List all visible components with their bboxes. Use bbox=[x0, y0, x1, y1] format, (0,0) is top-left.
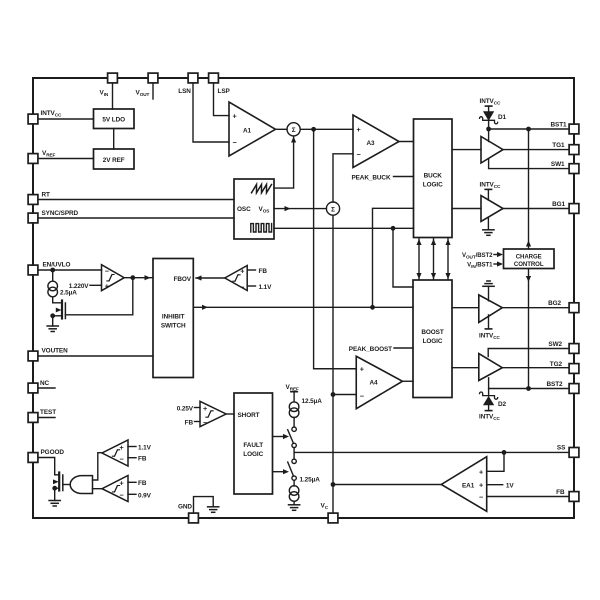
svg-text:+: + bbox=[479, 481, 483, 490]
svg-text:0.25V: 0.25V bbox=[177, 405, 194, 412]
wire AND out to M2 gate bbox=[63, 484, 70, 486]
svg-text:BG1: BG1 bbox=[552, 201, 565, 208]
pin VIN bbox=[108, 73, 118, 83]
svg-text:FB: FB bbox=[138, 480, 147, 487]
pin TEST bbox=[28, 413, 38, 423]
svg-text:−: − bbox=[105, 266, 109, 275]
wire SHORT comp out to FAULT LOGIC bbox=[226, 413, 234, 415]
svg-text:−: − bbox=[360, 391, 364, 400]
block BUCK LOGIC bbox=[414, 119, 453, 238]
sawtooth waveform glyph bbox=[252, 185, 272, 193]
svg-text:−: − bbox=[120, 454, 124, 463]
comparator PGOOD OV bbox=[102, 440, 128, 466]
wire M2 source to ground bbox=[54, 488, 56, 500]
svg-text:LOGIC: LOGIC bbox=[423, 182, 443, 189]
svg-text:+: + bbox=[357, 125, 361, 134]
wire FB stub OV bbox=[128, 457, 136, 459]
svg-text:+: + bbox=[105, 282, 109, 291]
wire EN/UVLO pin to comparator bbox=[38, 269, 101, 271]
block CHARGE CONTROL bbox=[504, 249, 555, 269]
svg-text:+: + bbox=[120, 443, 124, 452]
svg-text:12.5µA: 12.5µA bbox=[302, 398, 323, 405]
block 2V REF bbox=[94, 149, 135, 169]
wire BST1 rail into driver top bbox=[488, 129, 490, 142]
wire A1 out to sigma1 bbox=[276, 128, 288, 130]
svg-text:1.25µA: 1.25µA bbox=[300, 476, 321, 483]
summer sigma2 bbox=[326, 202, 339, 215]
pin EN/UVLO bbox=[28, 265, 38, 275]
junction square wave branch bbox=[391, 226, 396, 231]
pin SS bbox=[569, 448, 579, 458]
wire BST2 rail from driver bottom bbox=[489, 378, 569, 389]
wire charge pump up BST1 bbox=[528, 129, 530, 249]
op-amp A4 bbox=[356, 356, 402, 409]
hysteresis glyph SHORT comp bbox=[206, 411, 213, 417]
wire sigma1 to A3 plus bbox=[300, 128, 353, 130]
ground M2 bbox=[49, 501, 60, 507]
wire BOOST to TG2 driver bbox=[452, 367, 479, 369]
svg-text:Σ: Σ bbox=[331, 206, 335, 213]
pin TG2 bbox=[569, 364, 579, 374]
svg-text:+: + bbox=[233, 112, 237, 121]
wire inhibit branch to BUCK LOGIC bbox=[373, 208, 414, 307]
wire SW2 from TG2 driver top bbox=[488, 349, 569, 357]
wire source to ground bbox=[52, 316, 54, 326]
svg-text:1V: 1V bbox=[506, 482, 514, 489]
pin VOUT bbox=[148, 73, 158, 83]
buck-boost link arrow 3 bbox=[445, 239, 450, 280]
wire VOS to sigma2 bbox=[274, 208, 326, 210]
pin LSN bbox=[188, 73, 198, 83]
block FAULT LOGIC bbox=[234, 393, 273, 494]
square waveform glyph bbox=[251, 224, 272, 232]
switch SW B terminals and blade bbox=[288, 459, 297, 480]
svg-text:EA1: EA1 bbox=[462, 482, 475, 489]
junction SS to EA1 bbox=[502, 450, 507, 455]
wire source to mosfet drain bbox=[53, 298, 62, 303]
diode D1 schottky bbox=[480, 106, 498, 129]
comparator SHORT bbox=[200, 401, 226, 426]
wire 1V stub EA1 plus2 bbox=[487, 484, 503, 486]
svg-text:VOUTEN: VOUTEN bbox=[42, 348, 69, 355]
wire BG2 driver top to ground bbox=[488, 286, 490, 301]
svg-text:Σ: Σ bbox=[292, 127, 296, 134]
wire UV comp to AND input2 bbox=[93, 488, 102, 490]
block BOOST LOGIC bbox=[413, 280, 452, 398]
arrowhead into INHIBIT bbox=[145, 275, 151, 280]
driver BG1 bbox=[481, 196, 503, 222]
wire TG1 driver out to pin bbox=[503, 149, 569, 151]
wire charge pump down BST2 bbox=[528, 269, 530, 389]
wire SS branch to EA1 plus1 bbox=[487, 452, 504, 471]
ground BG1 driver bbox=[483, 230, 494, 236]
svg-text:SYNC/SPRD: SYNC/SPRD bbox=[42, 210, 79, 217]
svg-text:VREF: VREF bbox=[42, 150, 56, 158]
svg-text:PGOOD: PGOOD bbox=[41, 449, 65, 456]
wire INTVCC to BG1 driver top bbox=[487, 189, 489, 200]
svg-text:GND: GND bbox=[178, 504, 192, 511]
wire PGOOD pin to mosfet bbox=[38, 458, 59, 475]
wire VREF to current source bbox=[293, 392, 295, 402]
block OSC bbox=[234, 179, 274, 239]
junction A4 minus on VC node bbox=[331, 392, 336, 397]
pin LSP bbox=[209, 73, 219, 83]
wire 5V LDO to 2V REF bbox=[113, 129, 115, 150]
svg-text:LSN: LSN bbox=[178, 88, 191, 95]
svg-text:LOGIC: LOGIC bbox=[243, 451, 263, 458]
svg-text:PEAK_BUCK: PEAK_BUCK bbox=[351, 174, 391, 181]
op-amp EA1 bbox=[441, 457, 486, 512]
svg-text:INTVCC: INTVCC bbox=[479, 332, 501, 340]
current source 2.5uA bbox=[48, 281, 58, 297]
arrowhead on VOS wire bbox=[285, 206, 291, 211]
arrowhead into sigma1 bbox=[291, 137, 296, 143]
svg-text:A1: A1 bbox=[243, 127, 252, 134]
svg-text:−: − bbox=[120, 490, 124, 499]
svg-text:TG1: TG1 bbox=[552, 142, 565, 149]
svg-text:FB: FB bbox=[556, 489, 565, 496]
hysteresis glyph EN comp bbox=[107, 275, 114, 281]
arrow VIN/BST1 input bbox=[494, 261, 503, 266]
svg-text:FB: FB bbox=[259, 268, 268, 275]
svg-text:CONTROL: CONTROL bbox=[514, 261, 544, 268]
buck-boost link arrow 2 bbox=[431, 239, 436, 280]
wire A4 minus to VC node bbox=[333, 394, 356, 396]
wire BUCK to TG1 driver bbox=[452, 149, 481, 151]
wire VOUTEN to INHIBIT bbox=[38, 355, 153, 357]
wire BG2 driver bottom to INTVCC bbox=[488, 315, 490, 329]
transistor M2 PGOOD nmos bbox=[53, 473, 63, 491]
svg-text:+: + bbox=[479, 467, 483, 476]
svg-text:LOGIC: LOGIC bbox=[423, 338, 443, 345]
supply VREF tbar bbox=[291, 391, 297, 393]
svg-text:−: − bbox=[233, 138, 237, 147]
svg-text:SS: SS bbox=[557, 445, 566, 452]
svg-text:FB: FB bbox=[138, 456, 147, 463]
wire INTVCC pin to 5V LDO bbox=[38, 118, 93, 120]
pin NC bbox=[28, 383, 38, 393]
wire FB stub FBOV bbox=[247, 269, 255, 271]
wire 0.25V stub to SHORT comp bbox=[195, 407, 201, 409]
svg-text:INHIBIT: INHIBIT bbox=[162, 314, 185, 321]
svg-text:EN/UVLO: EN/UVLO bbox=[43, 262, 71, 269]
svg-text:−: − bbox=[240, 282, 244, 291]
pin SW1 bbox=[569, 164, 579, 174]
svg-text:TG2: TG2 bbox=[550, 361, 563, 368]
current source 12.5uA bbox=[289, 402, 299, 418]
pin PGOOD bbox=[28, 453, 38, 463]
wire branch down to A4 plus bbox=[314, 129, 357, 368]
svg-text:NC: NC bbox=[40, 380, 50, 387]
wire sawtooth to sigma1 bbox=[274, 137, 294, 188]
svg-text:RT: RT bbox=[42, 192, 51, 199]
svg-text:+: + bbox=[360, 365, 364, 374]
svg-text:FAULT: FAULT bbox=[243, 442, 263, 449]
wire BUCK to BG1 driver bbox=[452, 208, 481, 210]
pin VREF bbox=[28, 154, 38, 164]
ground current sink bbox=[289, 505, 300, 511]
outer border bbox=[33, 78, 574, 518]
op-amp A1 bbox=[229, 102, 276, 156]
pin BG1 bbox=[569, 204, 579, 214]
driver TG2 bbox=[479, 354, 503, 381]
junction mosfet source bbox=[50, 313, 55, 318]
supply INTVCC BG2 tbar bbox=[485, 328, 491, 330]
wire to current source 2.5uA bbox=[52, 270, 54, 280]
junction charge pump BST2 bbox=[526, 386, 531, 391]
svg-text:2V REF: 2V REF bbox=[103, 157, 125, 164]
driver TG1 bbox=[481, 137, 503, 164]
switch SW A terminals and blade bbox=[288, 427, 297, 448]
driver BG2 bbox=[479, 295, 503, 323]
pin INTVCC bbox=[28, 114, 38, 124]
svg-text:BUCK: BUCK bbox=[424, 173, 443, 180]
comparator EN/UVLO bbox=[102, 265, 125, 291]
svg-text:0.9V: 0.9V bbox=[138, 492, 152, 499]
buck-boost link arrow 1 bbox=[416, 239, 421, 280]
svg-text:PEAK_BOOST: PEAK_BOOST bbox=[349, 346, 392, 353]
pin GND bbox=[189, 513, 199, 523]
arrowhead inhibit out bbox=[202, 305, 208, 310]
svg-text:+: + bbox=[240, 266, 244, 275]
svg-text:VOUT: VOUT bbox=[136, 90, 150, 98]
wire FB stub to SHORT comp bbox=[195, 421, 201, 423]
wire source to switch 1 bbox=[293, 418, 295, 427]
pin VC bbox=[328, 513, 338, 523]
hysteresis glyph FBOV comp bbox=[233, 275, 240, 281]
svg-text:BST2: BST2 bbox=[546, 381, 563, 388]
junction EN/UVLO branch bbox=[50, 268, 55, 273]
junction EA1 out on VC node bbox=[331, 482, 336, 487]
svg-text:SW1: SW1 bbox=[551, 161, 565, 168]
pin BG2 bbox=[569, 303, 579, 313]
wire EA1 out to VC node bbox=[333, 484, 441, 486]
wire square wave to BUCK LOGIC bbox=[274, 227, 414, 229]
arrow FAULT to switch 1 bbox=[273, 434, 290, 439]
wire 0.9V stub UV bbox=[128, 493, 136, 495]
hysteresis glyph OV comp bbox=[112, 450, 119, 456]
svg-text:−: − bbox=[203, 418, 207, 427]
svg-text:5V LDO: 5V LDO bbox=[102, 117, 125, 124]
wire SYNC/SPRD pin to OSC bbox=[38, 217, 234, 219]
supply INTVCC D1 tbar bbox=[485, 105, 491, 107]
svg-text:A3: A3 bbox=[367, 140, 376, 147]
wire A3 out to BUCK LOGIC bbox=[399, 141, 414, 143]
ground M1 bbox=[47, 326, 58, 332]
svg-text:TEST: TEST bbox=[40, 409, 56, 416]
wire BG2 driver out to pin bbox=[502, 307, 568, 309]
wire LSP to A1 plus bbox=[214, 83, 230, 116]
wire SS line bbox=[294, 451, 569, 453]
wire INHIBIT out to BOOST LOGIC bbox=[193, 306, 413, 308]
svg-text:INTVCC: INTVCC bbox=[41, 110, 63, 118]
pin SYNC/SPRD bbox=[28, 213, 38, 223]
wire LSN to A1 minus bbox=[193, 83, 229, 142]
wire comp out to INHIBIT bbox=[124, 277, 153, 279]
svg-text:OSC: OSC bbox=[237, 206, 251, 213]
svg-text:BOOST: BOOST bbox=[421, 329, 443, 336]
arrowhead charge to BST2 bbox=[526, 276, 531, 282]
svg-text:LSP: LSP bbox=[218, 88, 231, 95]
ground GND pin bbox=[208, 507, 219, 513]
svg-text:INTVCC: INTVCC bbox=[480, 98, 502, 106]
svg-text:VOS: VOS bbox=[259, 206, 270, 214]
svg-text:CHARGE: CHARGE bbox=[516, 253, 542, 260]
wire gate branch bbox=[65, 278, 132, 315]
junction inhibit branch bbox=[370, 305, 375, 310]
wire SW1 from driver bottom bbox=[489, 159, 569, 169]
wire NC stub bbox=[38, 387, 55, 389]
arrow VOUT/BST2 input bbox=[494, 252, 503, 257]
junction D1 BST1 rail bbox=[486, 127, 491, 132]
svg-text:VIN/BST1: VIN/BST1 bbox=[467, 262, 493, 269]
supply INTVCC BG1 tbar bbox=[485, 188, 491, 190]
wire BST1 rail to pin bbox=[489, 128, 569, 130]
svg-text:−: − bbox=[357, 150, 361, 159]
wire BG1 driver out to pin bbox=[503, 208, 569, 210]
wire GND pin to ground symbol bbox=[194, 497, 214, 513]
arrowhead charge to BST1 bbox=[526, 241, 531, 247]
pin SW2 bbox=[569, 344, 579, 354]
wire square wave branch to BOOST LOGIC bbox=[393, 228, 413, 287]
wire OV comp to AND input1 bbox=[93, 453, 102, 480]
supply INTVCC D2 tbar bbox=[485, 410, 491, 412]
block 5V LDO bbox=[94, 109, 135, 129]
hysteresis glyph UV comp bbox=[112, 486, 119, 492]
wire VREF pin to 2V REF bbox=[38, 158, 93, 160]
pin BST1 bbox=[569, 124, 579, 134]
svg-text:VOUT/BST2: VOUT/BST2 bbox=[462, 252, 493, 259]
wire RT pin to OSC bbox=[38, 199, 234, 201]
svg-text:FB: FB bbox=[185, 419, 194, 426]
wire VOUT stub bbox=[152, 83, 154, 99]
wire FB stub UV bbox=[128, 481, 136, 483]
wire 1.1V stub FBOV bbox=[247, 285, 255, 287]
svg-text:VREF: VREF bbox=[286, 384, 300, 392]
svg-text:FBOV: FBOV bbox=[174, 276, 192, 283]
svg-text:SWITCH: SWITCH bbox=[161, 323, 186, 330]
summer sigma1 bbox=[287, 123, 300, 136]
wire PEAK_BOOST to BOOST LOGIC bbox=[394, 347, 413, 349]
wire switch2 to current sink bbox=[293, 480, 295, 486]
svg-text:INTVCC: INTVCC bbox=[480, 181, 502, 189]
pin RT bbox=[28, 195, 38, 205]
junction M2 source bbox=[52, 486, 57, 491]
wire EA1 minus to FB pin bbox=[487, 496, 569, 498]
wire PEAK_BUCK to BUCK LOGIC bbox=[394, 176, 414, 178]
pin TG1 bbox=[569, 145, 579, 155]
wire sigma2 down VC node bbox=[332, 215, 334, 513]
svg-text:D1: D1 bbox=[498, 114, 507, 121]
transistor M1 EN/UVLO nmos bbox=[53, 301, 66, 319]
wire TG2 driver out to pin bbox=[502, 367, 568, 369]
comparator PGOOD UV bbox=[102, 476, 128, 502]
AND gate PGOOD bbox=[70, 476, 92, 494]
current sink 1.25uA bbox=[289, 486, 299, 502]
wire sigma2 to A3 minus bbox=[333, 154, 353, 202]
svg-text:−: − bbox=[479, 493, 483, 502]
wire 1.1V stub OV bbox=[128, 446, 136, 448]
svg-text:BST1: BST1 bbox=[550, 121, 567, 128]
svg-text:BG2: BG2 bbox=[548, 300, 561, 307]
wire VIN pin to 5V LDO bbox=[112, 83, 114, 109]
svg-text:VC: VC bbox=[321, 503, 329, 511]
junction A3 plus branch bbox=[311, 127, 316, 132]
wire sink to ground bbox=[293, 501, 295, 505]
svg-text:+: + bbox=[203, 404, 207, 413]
wire 1.220V to comp plus bbox=[90, 284, 102, 286]
svg-text:2.5µA: 2.5µA bbox=[60, 289, 77, 296]
arrow FAULT to switch 2 bbox=[273, 469, 290, 474]
svg-text:A4: A4 bbox=[370, 379, 379, 386]
svg-text:SHORT: SHORT bbox=[238, 412, 260, 419]
pin VOUTEN bbox=[28, 351, 38, 361]
junction charge pump BST1 bbox=[526, 127, 531, 132]
pin FB bbox=[569, 492, 579, 502]
svg-text:+: + bbox=[120, 479, 124, 488]
svg-text:INTVCC: INTVCC bbox=[479, 413, 501, 421]
diode D2 schottky bbox=[480, 389, 498, 411]
arrowhead FBOV into INHIBIT bbox=[196, 275, 202, 280]
wire BG1 driver to ground bbox=[487, 217, 489, 230]
svg-text:VIN: VIN bbox=[100, 90, 109, 98]
junction comp out gate branch bbox=[130, 275, 135, 280]
wire switch1 to SS line bbox=[293, 448, 295, 460]
svg-text:1.1V: 1.1V bbox=[259, 284, 273, 291]
svg-text:D2: D2 bbox=[498, 401, 507, 408]
block INHIBIT SWITCH bbox=[153, 259, 193, 378]
svg-text:SW2: SW2 bbox=[548, 341, 562, 348]
pin BST2 bbox=[569, 384, 579, 394]
svg-text:1.1V: 1.1V bbox=[138, 444, 152, 451]
comparator FBOV bbox=[225, 266, 247, 291]
wire FBOV comp out to INHIBIT bbox=[196, 277, 225, 279]
wire A4 out to BOOST LOGIC bbox=[403, 380, 414, 382]
ground BG2 driver top (inverted) bbox=[483, 281, 494, 286]
wire TEST stub bbox=[38, 417, 55, 419]
wire BOOST to BG2 driver bbox=[452, 307, 479, 309]
op-amp A3 bbox=[353, 115, 399, 168]
